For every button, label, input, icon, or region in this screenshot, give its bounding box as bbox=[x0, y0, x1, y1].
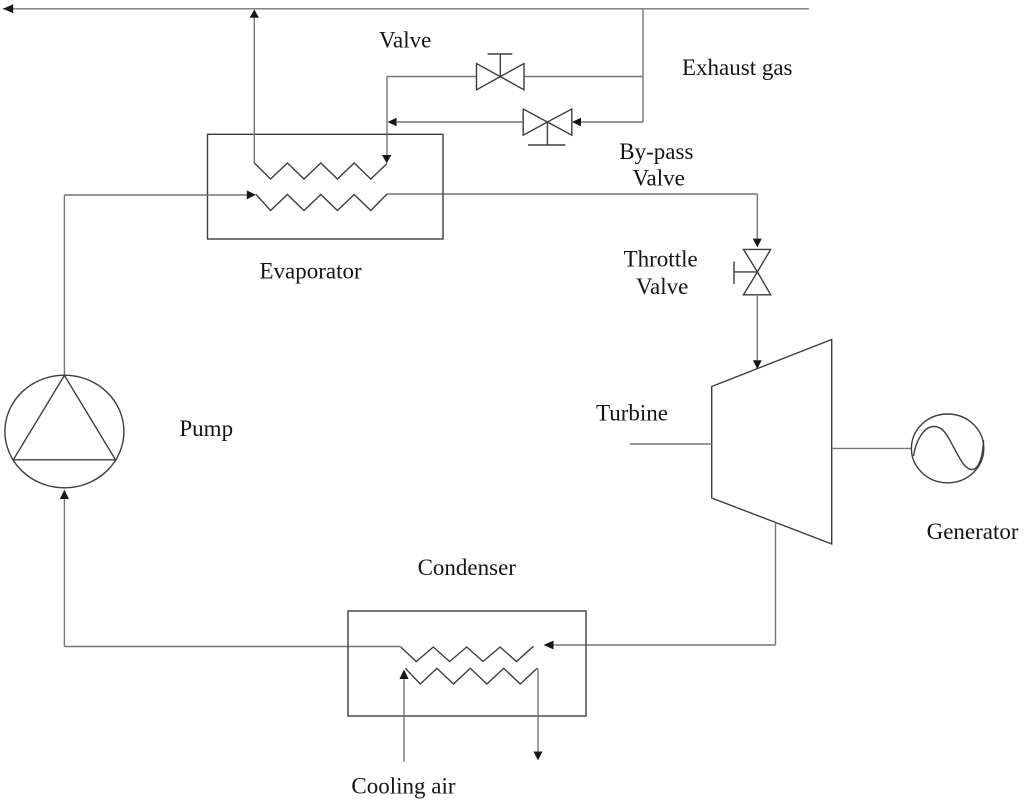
svg-text:By-pass: By-pass bbox=[619, 139, 693, 164]
svg-text:Condenser: Condenser bbox=[418, 555, 517, 580]
svg-text:Generator: Generator bbox=[927, 519, 1019, 544]
svg-text:Cooling air: Cooling air bbox=[351, 774, 455, 799]
svg-text:Pump: Pump bbox=[179, 416, 233, 441]
svg-text:Turbine: Turbine bbox=[596, 400, 668, 425]
svg-text:Throttle: Throttle bbox=[624, 246, 698, 271]
svg-text:Valve: Valve bbox=[379, 28, 431, 53]
svg-text:Exhaust gas: Exhaust gas bbox=[682, 55, 793, 80]
svg-text:Valve: Valve bbox=[633, 166, 685, 191]
svg-text:Valve: Valve bbox=[636, 274, 688, 299]
svg-text:Evaporator: Evaporator bbox=[260, 258, 363, 283]
